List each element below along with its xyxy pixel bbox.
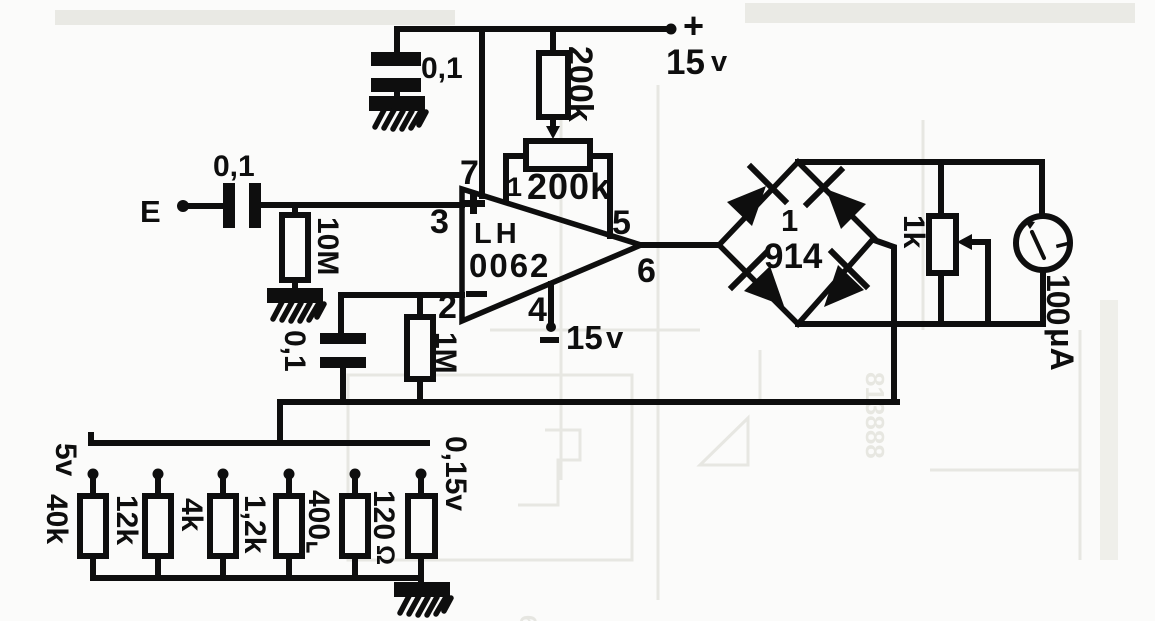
wire: op-amp output pin 6 to bridge [641,242,719,248]
wire: feedback cap branch down [338,295,344,333]
svg-text:6: 6 [637,252,656,290]
svg-text:Ω: Ω [371,545,399,565]
range resistor R 12k [153,469,164,480]
wire: pin 2 inverting input [341,292,462,298]
ground (range divider) [397,585,451,615]
wire: +15V top rail [397,26,671,32]
resistor 1M : bottom lead [417,379,423,402]
wire: pot right lead to pin 5 [590,156,610,236]
resistor 200k (body) [539,53,568,117]
svg-text:v: v [711,46,727,78]
wire: pin 7 supply wire [479,29,485,196]
wire: feedback rail [280,399,897,405]
resistor 10M (body) [282,215,308,280]
wire: 1k pot bottom lead [938,273,944,323]
wire: 200k resistor top lead [550,29,556,53]
capacitor C bypass 0,1 : top lead [394,29,400,52]
label + input [462,200,485,207]
svg-text:40k: 40k [40,494,73,544]
wire: range bottom bus [93,575,421,581]
range resistor R 120 [416,469,427,480]
resistor 10M : top lead [292,205,298,215]
wire: 200k bottom lead with arrow to pot [550,117,556,128]
wire: pot left lead to pin 1 [506,156,526,200]
capacitor 0,1 feedback (plates) [320,333,366,368]
potentiometer 1k (body) [929,216,956,273]
wire: 1k pot top lead [938,162,944,216]
wire: down to range rail [277,402,283,443]
range resistor R 4k [218,469,229,480]
wire: bridge top to meter top rail [798,162,1042,217]
svg-text:15: 15 [566,319,603,356]
ground (bypass cap) [372,99,426,129]
svg-text:400⌞: 400⌞ [302,490,335,554]
resistor 1M (body) [407,317,433,379]
capacitor C bypass 0,1 : bottom lead [394,92,400,99]
svg-text:5: 5 [612,204,631,242]
resistor 1M : top lead [417,295,423,317]
svg-text:0,1: 0,1 [421,52,463,85]
capacitor 0,1 input (plates) [223,183,261,228]
svg-text:7: 7 [460,154,479,192]
svg-text:4: 4 [528,291,547,329]
wire: meter bottom lead [1040,270,1046,323]
svg-text:10M: 10M [311,217,344,275]
svg-text:100: 100 [1040,274,1076,325]
svg-text:3: 3 [430,203,449,241]
capacitor C bypass 0,1 : plates [371,52,421,92]
diode D4 bar (lower-right) [832,252,866,286]
svg-text:813888: 813888 [860,372,890,459]
wire: range feed rail with hook [91,435,427,443]
label - input [466,291,487,297]
svg-text:μA: μA [1044,328,1080,371]
wire: bridge bottom rail [798,321,1043,327]
svg-text:120: 120 [367,490,400,540]
potentiometer 200k (body) [526,141,590,169]
svg-text:200k: 200k [527,166,611,207]
svg-text:914: 914 [764,237,823,276]
meter M1 100uA (face) [1016,216,1070,270]
diode D2 arrow (upper-right) [826,189,866,229]
wire: input cap to pin 3 [261,202,462,208]
range resistor R 1,2k [284,469,295,480]
diode bridge 1N914 diamond [719,162,874,324]
svg-text:1: 1 [507,172,522,202]
diode D4 arrow (lower-right) [824,265,864,307]
svg-text:E: E [140,194,161,229]
diode D3 bar (lower-left) [732,253,766,287]
svg-text:15: 15 [666,43,705,82]
diode D1 bar (upper-left) [751,167,785,201]
wire: wiper down to bottom rail [985,242,991,323]
wire: feedback cap bottom lead [340,368,346,402]
svg-text:0,15v: 0,15v [439,436,472,511]
svg-text:1k: 1k [897,215,930,249]
wire: pin 4 to -15V [548,284,554,322]
svg-text:1,2k: 1,2k [238,495,271,554]
wire: bridge right corner down to feedback rail [874,240,894,402]
diode D1 arrow (upper-left) [727,186,766,226]
svg-text:0062: 0062 [469,247,550,284]
svg-text:5v: 5v [49,443,82,477]
diode D3 arrow (lower-left) [744,266,784,306]
svg-text:6: 6 [514,615,541,621]
svg-text:1: 1 [781,203,798,238]
svg-text:1M: 1M [429,332,462,374]
svg-text:12k: 12k [110,495,143,545]
node: +15V terminal dot [666,24,677,35]
svg-text:v: v [606,320,624,355]
svg-text:0,1: 0,1 [278,330,311,372]
svg-text:0,1: 0,1 [213,150,255,183]
op-amp U1 LH0062 triangle [462,189,641,321]
ground (10M) [270,291,324,321]
diode D2 bar (upper-right) [807,170,841,204]
node E input terminal [177,200,189,212]
meter needle [1032,232,1044,258]
node: -15V terminal dot [546,322,556,332]
range resistor R 400 [350,469,361,480]
svg-text:+: + [683,5,704,46]
resistor 10M : bottom lead [292,280,298,291]
svg-text:200k: 200k [561,46,599,122]
svg-text:LH: LH [474,218,521,250]
wire: 1k pot wiper [968,239,988,245]
label -15 v [540,337,559,343]
wire: E to input capacitor [189,203,223,209]
meter tick [1058,244,1066,246]
svg-text:4k: 4k [175,498,208,532]
svg-text:2: 2 [438,288,457,326]
range resistor R 40k [88,469,99,480]
